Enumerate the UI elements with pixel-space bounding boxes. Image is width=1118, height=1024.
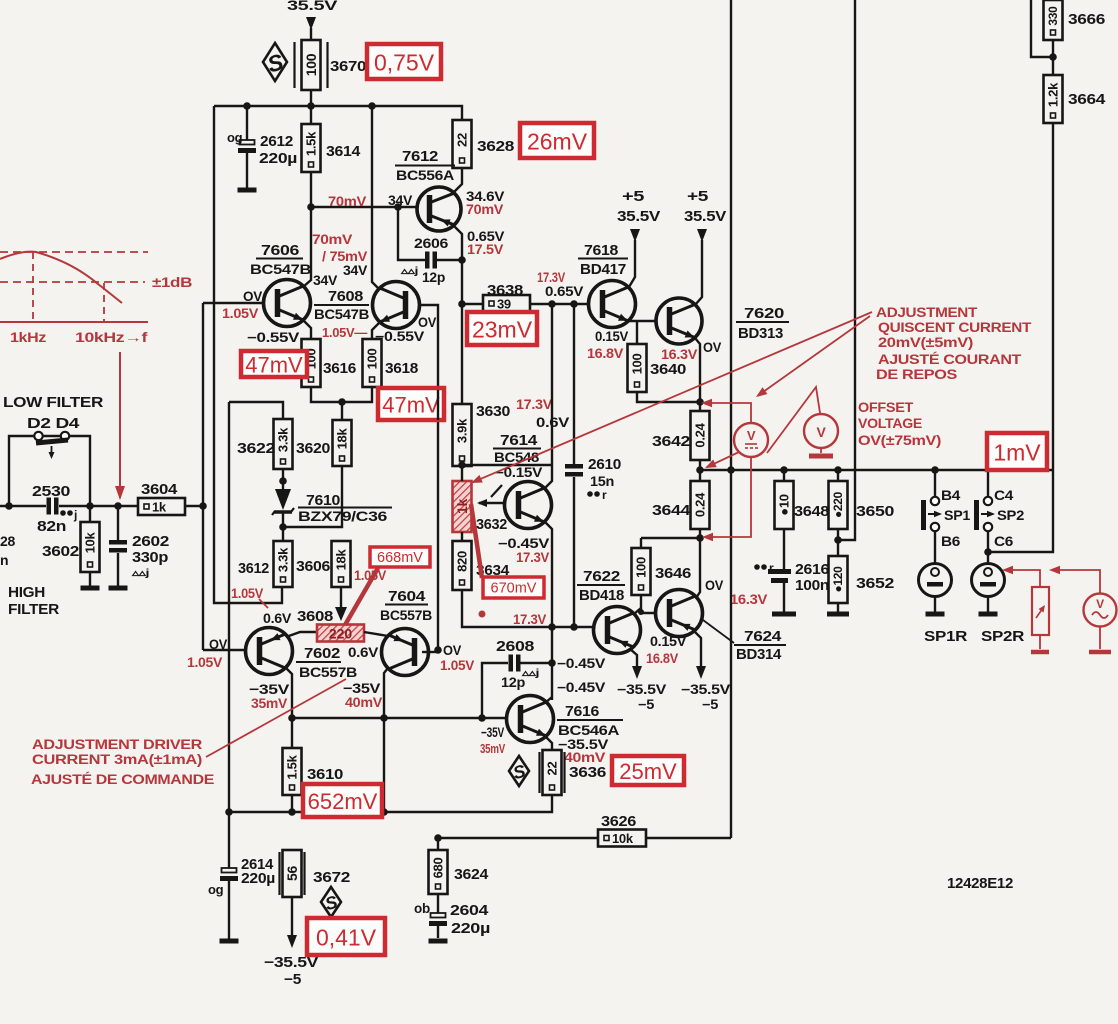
svg-text:3616: 3616 — [323, 360, 356, 377]
wire 7602 collector down — [286, 668, 292, 718]
svg-text:1.05V: 1.05V — [231, 586, 263, 601]
svg-text:OV: OV — [418, 315, 436, 330]
svg-text:BC547B: BC547B — [250, 261, 311, 277]
supply arrow 7620 — [697, 229, 707, 242]
arrow SP2 — [981, 513, 993, 515]
resistor 3664 1.2k — [1044, 75, 1063, 123]
svg-text:1.5k: 1.5k — [304, 131, 319, 156]
junction bus/3614 — [307, 102, 315, 110]
svg-text:22: 22 — [455, 133, 470, 147]
svg-text:10kHz→f: 10kHz→f — [75, 330, 148, 345]
svg-text:15n: 15n — [590, 473, 614, 489]
svg-text:10k: 10k — [83, 532, 98, 554]
junction 3644 bottom — [696, 534, 704, 542]
wire input line y506 — [0, 505, 46, 507]
contact C4 — [984, 497, 992, 505]
junction x552 — [548, 300, 556, 308]
wire 7620 collector supply — [695, 240, 702, 305]
svg-text:D2 D4: D2 D4 — [27, 416, 79, 432]
junction 3624 — [434, 834, 442, 842]
svg-text:V: V — [747, 428, 756, 443]
red dashed 10kHz vertical — [103, 283, 105, 322]
red pointer to 3632 — [473, 312, 872, 482]
rail B bus-left vertical — [214, 106, 282, 603]
svg-text:3618: 3618 — [385, 360, 418, 377]
junction 7604 base — [434, 646, 442, 654]
svg-text:VOLTAGE: VOLTAGE — [858, 416, 922, 431]
wire C6 to jack — [987, 531, 989, 564]
svg-text:−35V: −35V — [343, 680, 381, 696]
svg-text:22: 22 — [545, 762, 560, 776]
fusible resistor 3672 56 — [278, 852, 280, 895]
wire 7618 emitter to 7620 base — [628, 320, 657, 322]
svg-text:2616: 2616 — [795, 561, 829, 578]
wire 7622 collector diag — [634, 608, 641, 614]
capacitor 2606 12p — [398, 207, 425, 260]
wire 3666 to 3664 — [1052, 40, 1054, 75]
svg-text:ADJUSTMENT DRIVER: ADJUSTMENT DRIVER — [32, 737, 203, 752]
safety diamond S 3672 — [321, 887, 341, 917]
red wire load to SP2R — [1010, 570, 1040, 587]
junction 7604 collector on base rail — [380, 714, 388, 722]
junction 0.24 top — [696, 398, 704, 406]
junction 7604 collector/-rail — [380, 808, 388, 816]
svg-text:16.3V: 16.3V — [730, 592, 767, 607]
svg-text:35mV: 35mV — [251, 696, 287, 711]
red pointer to meter loop — [758, 316, 870, 396]
resistor 3604 1k — [138, 498, 185, 515]
transistor 7612 BC556A — [417, 187, 461, 231]
svg-text:3652: 3652 — [856, 575, 894, 592]
svg-text:680: 680 — [431, 858, 446, 879]
transistor 7616 BC546A — [507, 696, 554, 743]
svg-text:−0.55V: −0.55V — [247, 330, 299, 345]
svg-text:2602: 2602 — [132, 533, 169, 550]
wire 7618 collector supply — [629, 240, 635, 287]
svg-text:OFFSET: OFFSET — [858, 400, 914, 415]
junction x552/y627 — [548, 623, 556, 631]
svg-text:0,41V: 0,41V — [316, 925, 377, 951]
wire 3670 to bus — [310, 90, 312, 106]
svg-text:3602: 3602 — [42, 543, 79, 560]
svg-text:2612: 2612 — [260, 133, 293, 150]
resistor 3628 22 — [453, 120, 472, 168]
svg-text:BD314: BD314 — [736, 647, 781, 663]
vertical bus x855 — [854, 0, 856, 470]
fusible resistor 3636 22 — [538, 752, 540, 793]
svg-text:3632: 3632 — [476, 516, 507, 533]
junction 2602 — [114, 502, 122, 510]
wire 820 to y627 rail — [462, 590, 593, 627]
svg-text:−35.5V: −35.5V — [617, 682, 666, 697]
red probe slant — [767, 387, 820, 453]
svg-text:40mV: 40mV — [345, 695, 382, 710]
svg-text:OV: OV — [443, 642, 462, 658]
svg-text:7618: 7618 — [584, 242, 618, 259]
svg-text:3.9k: 3.9k — [455, 418, 470, 443]
svg-text:BC557B: BC557B — [380, 607, 432, 623]
junction 3638 node — [458, 300, 466, 308]
wire 3616/3618 bottoms join — [311, 387, 372, 402]
svg-text:17.3V: 17.3V — [516, 550, 549, 565]
junction C6/feedback — [984, 548, 992, 556]
resistor 3608 220 (hatched) — [286, 632, 317, 637]
svg-text:−5: −5 — [638, 697, 655, 712]
svg-text:▵▵j: ▵▵j — [131, 568, 150, 579]
svg-text:3640: 3640 — [650, 361, 686, 378]
svg-text:0,75V: 0,75V — [374, 50, 435, 76]
wire 7606 base from input rail — [203, 302, 264, 304]
transistor 7620 BD313 — [656, 298, 702, 344]
svg-text:+5: +5 — [622, 189, 644, 205]
svg-text:670mV: 670mV — [491, 581, 537, 597]
wire 7612 collector to 3628 — [452, 168, 462, 194]
junction x574/y627 — [570, 623, 578, 631]
svg-text:17.3V: 17.3V — [513, 612, 546, 627]
svg-text:BD418: BD418 — [579, 588, 624, 604]
svg-text:V: V — [816, 424, 826, 440]
svg-text:220: 220 — [329, 626, 353, 642]
svg-text:220µ: 220µ — [241, 870, 275, 887]
svg-text:3612: 3612 — [238, 560, 269, 577]
svg-text:0.15V: 0.15V — [650, 634, 686, 649]
svg-text:n: n — [0, 552, 8, 568]
wire -35V rail y812 — [229, 795, 552, 812]
svg-text:0.24: 0.24 — [693, 492, 708, 517]
svg-text:3628: 3628 — [477, 138, 514, 155]
svg-text:56: 56 — [284, 866, 300, 881]
svg-text:652mV: 652mV — [308, 789, 378, 814]
wire 7616 collector — [545, 697, 552, 703]
wire 7624 collector up — [696, 538, 700, 598]
svg-text:1k: 1k — [454, 499, 470, 514]
svg-text:AJUSTÉ COURANT: AJUSTÉ COURANT — [878, 352, 1022, 367]
svg-text:7620: 7620 — [744, 305, 784, 322]
jack SP1R — [919, 564, 952, 597]
resistor 3622 3.3k — [274, 419, 293, 469]
red box 1mV — [987, 433, 1047, 470]
svg-text:70mV: 70mV — [312, 232, 352, 247]
resistor 3620 18k — [333, 420, 352, 466]
red wire meter to junction 470 — [707, 452, 739, 467]
vertical bus x731 — [730, 0, 732, 838]
svg-text:2610: 2610 — [588, 456, 621, 473]
supply arrow 7618 — [630, 229, 640, 242]
junction 3622/zener — [279, 477, 287, 485]
safety diamond S (3670) — [263, 43, 287, 81]
svg-text:23mV: 23mV — [472, 317, 533, 343]
resistor 3666 330 — [1044, 0, 1063, 40]
red meter V-DC circle — [734, 423, 768, 457]
svg-text:−0.15V: −0.15V — [495, 465, 542, 480]
svg-text:−0.45V: −0.45V — [557, 680, 605, 695]
wire 7614 base w/ arrow — [479, 502, 504, 504]
red box 23mV — [467, 312, 537, 345]
svg-text:100: 100 — [634, 557, 649, 578]
svg-text:12p: 12p — [422, 269, 445, 285]
svg-text:1.2k: 1.2k — [1046, 82, 1061, 107]
svg-text:3604: 3604 — [141, 481, 178, 498]
red frequency response curve — [0, 252, 122, 303]
svg-text:0.65V: 0.65V — [545, 284, 583, 299]
junction 2606 right — [458, 256, 466, 264]
svg-text:7610: 7610 — [306, 492, 340, 509]
wire 7606 collector up — [303, 207, 311, 287]
svg-text:C4: C4 — [994, 487, 1014, 503]
contact B6 — [931, 523, 939, 531]
transistor 7614 BC548 — [505, 482, 552, 529]
svg-text:3664: 3664 — [1068, 91, 1106, 108]
safety diamond S 3636 — [509, 756, 529, 786]
ground 3652 — [827, 612, 849, 617]
svg-text:47mV: 47mV — [245, 353, 303, 378]
junction 3666/3664 — [1049, 53, 1057, 61]
junction 3648 — [780, 466, 788, 474]
svg-text:1.05V: 1.05V — [187, 655, 222, 670]
svg-text:28: 28 — [0, 533, 16, 549]
ground SP2R — [979, 612, 998, 617]
resistor 3614 1.5k — [310, 106, 312, 124]
transistor 7604 BC557B (mirrored) — [382, 629, 429, 676]
svg-text:3648: 3648 — [794, 503, 829, 520]
svg-text:3.3k: 3.3k — [276, 547, 291, 572]
svg-text:SP1: SP1 — [944, 507, 971, 523]
svg-text:17.3V: 17.3V — [537, 270, 565, 285]
ground 3602 — [81, 586, 100, 591]
resistor 3650 220 — [837, 470, 839, 481]
svg-text:7612: 7612 — [402, 148, 438, 165]
red box 668mV — [370, 547, 430, 567]
svg-text:OV(±75mV): OV(±75mV) — [858, 433, 941, 448]
svg-text:2608: 2608 — [496, 638, 534, 655]
wire base rail 7616 — [292, 717, 506, 719]
svg-text:3672: 3672 — [313, 869, 350, 886]
svg-text:±1dB: ±1dB — [152, 275, 193, 290]
svg-text:SP2: SP2 — [997, 507, 1025, 523]
junction 3616/3618 — [338, 398, 346, 406]
red meter V circle — [804, 414, 838, 448]
junction rail C — [225, 808, 233, 816]
transistor 7618 BD417 — [589, 281, 636, 328]
svg-text:CURRENT 3mA(±1mA): CURRENT 3mA(±1mA) — [32, 752, 202, 767]
svg-text:3622: 3622 — [237, 440, 275, 457]
svg-text:/ 75mV: / 75mV — [322, 249, 367, 264]
arrow SP1 — [928, 513, 940, 515]
red load resistor — [1032, 587, 1049, 635]
junction bus731 — [727, 466, 735, 474]
red box 670mV — [483, 577, 544, 598]
wire 3664 down to C6 — [988, 123, 1053, 552]
jack SP2R — [972, 564, 1005, 597]
svg-text:QUISCENT CURRENT: QUISCENT CURRENT — [878, 320, 1032, 335]
red load ground — [1039, 635, 1041, 649]
red box 47mV a — [241, 351, 307, 377]
resistor 3634 820 — [453, 541, 472, 590]
wire 7614 collector — [545, 304, 552, 488]
wire top bus +rail — [214, 106, 462, 120]
wire 3.9k feed — [461, 304, 463, 404]
junction 2608 right — [548, 659, 556, 667]
svg-text:34V: 34V — [343, 263, 367, 278]
svg-text:1kHz: 1kHz — [10, 330, 47, 345]
red arrow 668mV — [345, 568, 378, 625]
svg-text:r: r — [602, 488, 607, 502]
svg-text:▵▵j: ▵▵j — [400, 266, 419, 277]
resistor 3652 120 — [837, 540, 839, 556]
svg-text:3610: 3610 — [307, 766, 343, 783]
red box 652mV — [303, 784, 382, 817]
resistor 3630 3.9k — [453, 404, 472, 466]
red dashed level 0dB — [0, 251, 148, 253]
capacitor 2602 330p — [117, 506, 119, 540]
svg-text:820: 820 — [455, 551, 470, 572]
fusible resistor 3670 100 — [293, 42, 295, 88]
wire B4 tap — [934, 470, 936, 497]
resistor 3642 0.24 — [699, 402, 701, 411]
red box 47mV b — [378, 388, 444, 420]
svg-text:−5: −5 — [702, 697, 719, 712]
svg-text:3666: 3666 — [1068, 11, 1105, 28]
junction 7622 collector — [638, 609, 644, 615]
svg-text:18k: 18k — [335, 428, 350, 450]
svg-text:BD417: BD417 — [580, 262, 626, 278]
svg-text:18k: 18k — [334, 549, 349, 571]
wire supply to fuse 3670 — [310, 28, 312, 41]
svg-text:−35V: −35V — [249, 681, 290, 697]
red box 0,41V — [307, 918, 385, 955]
svg-text:1k: 1k — [152, 500, 167, 515]
svg-text:34V: 34V — [388, 193, 412, 208]
svg-text:3638: 3638 — [487, 282, 523, 299]
svg-text:r: r — [769, 561, 774, 575]
svg-text:−35.5V: −35.5V — [681, 682, 730, 697]
capacitor 2610 15n — [573, 304, 575, 464]
svg-text:BC556A: BC556A — [396, 167, 454, 183]
svg-text:OV: OV — [705, 577, 724, 593]
svg-text:1.05V: 1.05V — [222, 306, 258, 321]
wire 7624 emitter supply — [694, 631, 701, 666]
svg-text:SP1R: SP1R — [924, 628, 968, 645]
wire 7608 emitter to 3618 — [372, 322, 380, 339]
wire 7620 emitter down — [695, 338, 700, 402]
wire 3608 to 7604 — [364, 632, 388, 636]
svg-text:HIGH: HIGH — [8, 585, 45, 601]
svg-text:2530: 2530 — [32, 483, 70, 500]
junction B4 tap — [931, 466, 939, 474]
wire 3672 to supply arrow — [291, 897, 293, 936]
svg-text:10k: 10k — [612, 831, 634, 846]
svg-text:40mV: 40mV — [564, 750, 605, 765]
wire B6 to jack — [934, 531, 936, 564]
transistor 7602 BC557B — [246, 628, 293, 675]
resistor 3640 100 — [628, 344, 647, 392]
resistor 3644 0.24 — [699, 470, 701, 481]
svg-text:17.5V: 17.5V — [467, 242, 503, 257]
resistor 3610 1.5k — [291, 718, 293, 748]
svg-text:3646: 3646 — [655, 565, 691, 582]
svg-text:−0.45V: −0.45V — [498, 536, 549, 551]
node 70mV junction — [307, 203, 315, 211]
junction input/3604 — [199, 502, 207, 510]
wire 3640 tap — [636, 321, 638, 344]
svg-text:3606: 3606 — [296, 558, 330, 575]
red meter ground — [820, 448, 822, 453]
transistor 7622 BD418 — [594, 607, 641, 654]
svg-text:●220: ●220 — [831, 491, 845, 518]
svg-text:220µ: 220µ — [451, 920, 490, 937]
svg-text:35mV: 35mV — [480, 741, 505, 756]
wire 3622 to zener — [282, 469, 284, 489]
svg-text:35.5V: 35.5V — [287, 0, 338, 13]
resistor 3624 680 — [437, 838, 439, 850]
wire x438 over 47mV box — [437, 390, 439, 420]
transistor 7624 BD314 — [656, 590, 703, 637]
ground SP1R — [926, 612, 945, 617]
svg-text:0.15V: 0.15V — [595, 329, 628, 344]
capacitor 2608 12p — [482, 663, 508, 718]
svg-text:3642: 3642 — [652, 433, 690, 450]
contact B4 — [931, 497, 939, 505]
svg-text:V: V — [1096, 597, 1104, 611]
wire 3606 to arrow on 3608 — [340, 587, 342, 609]
resistor 3646 100 — [640, 538, 642, 548]
junction filter right — [86, 502, 94, 510]
svg-text:1mV: 1mV — [993, 440, 1041, 466]
resistor 3648 10 — [783, 470, 785, 481]
svg-text:3650: 3650 — [856, 503, 894, 520]
svg-text:3670: 3670 — [330, 58, 366, 75]
wire y465 collector link — [462, 464, 552, 466]
resistor 3626 10k — [598, 830, 646, 847]
wire 3614 to 70mV node — [310, 172, 312, 208]
svg-text:3614: 3614 — [326, 143, 361, 160]
svg-text:330p: 330p — [132, 549, 168, 566]
junction filter left — [5, 502, 13, 510]
svg-text:3.3k: 3.3k — [276, 427, 291, 452]
red input pointer line — [119, 352, 121, 498]
red AC source — [1084, 594, 1117, 627]
switch SP1 bar — [921, 500, 926, 530]
ground 2612 — [238, 188, 257, 193]
input rail vertical A — [202, 303, 204, 650]
capacitor 2614 220u — [228, 812, 230, 868]
junction bus/2612 — [243, 102, 251, 110]
svg-text:2604: 2604 — [450, 902, 489, 919]
svg-text:668mV: 668mV — [377, 550, 423, 566]
svg-text:3636: 3636 — [569, 764, 606, 781]
capacitor 2530 82n — [47, 498, 52, 515]
svg-text:2606: 2606 — [414, 235, 449, 251]
rail C vertical to -rail — [228, 402, 230, 812]
switch block D2 D4 — [9, 436, 35, 506]
wire 3646 to 7624 base — [641, 595, 656, 613]
svg-text:C6: C6 — [994, 533, 1014, 549]
svg-text:LOW FILTER: LOW FILTER — [3, 395, 104, 411]
wire net 70mV to 7612 base — [311, 206, 417, 208]
wire 7616 emitter to 3636 — [545, 736, 552, 750]
svg-text:7624: 7624 — [744, 628, 782, 645]
red frequency axis — [0, 321, 148, 323]
svg-text:100: 100 — [365, 349, 380, 370]
capacitor 2616 100n — [783, 529, 785, 570]
svg-text:35.5V: 35.5V — [684, 209, 727, 225]
wire down to 3620 — [341, 402, 343, 420]
junction zener/3612 — [279, 523, 287, 531]
red box 25mV — [612, 756, 684, 785]
red dashed 1kHz vertical — [32, 252, 34, 322]
svg-text:35.5V: 35.5V — [617, 209, 661, 225]
svg-text:OV: OV — [703, 339, 722, 355]
